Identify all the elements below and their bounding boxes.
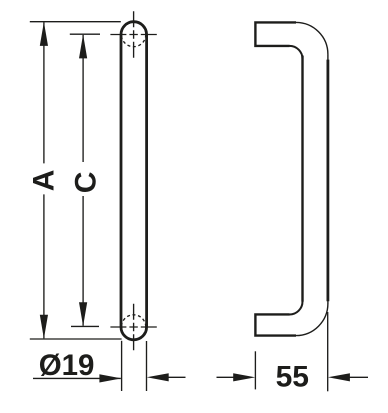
diameter 19 extension line right bbox=[146, 341, 148, 391]
dim 55 left arrowhead bbox=[233, 373, 255, 381]
dim A line bbox=[43, 22, 45, 338]
side view bottom outer bend bbox=[296, 304, 328, 336]
side view top mounting foot bbox=[255, 22, 296, 46]
dim 55 right arrow tail bbox=[350, 376, 369, 378]
diameter 19 right arrow tail bbox=[168, 376, 186, 378]
dim C bottom extension line bbox=[71, 325, 99, 327]
dim 55 right arrowhead bbox=[328, 373, 350, 381]
top center mark vertical bbox=[133, 11, 135, 57]
dim 55 extension line right bbox=[327, 312, 329, 391]
dim A top arrowhead bbox=[40, 22, 48, 46]
front view bottom screw-hole dashed circle bbox=[121, 315, 145, 339]
diameter 19 right arrowhead bbox=[147, 373, 169, 381]
dim A bottom arrowhead bbox=[40, 315, 48, 339]
side view top outer bend tail bbox=[327, 54, 329, 60]
diameter 19 leader line bbox=[33, 377, 121, 379]
bottom center mark horizontal bbox=[110, 326, 156, 328]
side view bottom mounting foot bbox=[255, 314, 296, 335]
dim 55 left arrow tail bbox=[217, 376, 234, 378]
dim C line bbox=[82, 35, 84, 326]
svg-text:55: 55 bbox=[276, 361, 309, 394]
diameter 19 leader arrowhead bbox=[99, 374, 121, 382]
diameter 19 extension line left bbox=[121, 341, 123, 391]
svg-text:C: C bbox=[69, 172, 102, 194]
side view top inner bend bbox=[290, 46, 303, 59]
top center mark horizontal bbox=[110, 34, 156, 36]
dim 55 extension line left bbox=[254, 351, 256, 389]
dim C top arrowhead bbox=[79, 34, 87, 58]
svg-text:A: A bbox=[28, 170, 61, 192]
dim A bottom extension line bbox=[30, 338, 122, 340]
dim C bottom arrowhead bbox=[79, 302, 87, 326]
front view top screw-hole dashed circle bbox=[121, 22, 145, 46]
dim C top extension line bbox=[70, 33, 100, 35]
svg-text:Ø19: Ø19 bbox=[39, 349, 95, 382]
side view bottom outer bend tail bbox=[327, 301, 329, 304]
front view handle outline capsule bbox=[121, 22, 147, 340]
dim A top extension line bbox=[30, 21, 121, 23]
bottom center mark vertical bbox=[133, 304, 135, 350]
side view grip inner edge bbox=[301, 56, 303, 302]
side view bottom inner bend bbox=[290, 302, 303, 315]
side view grip outer edge bbox=[326, 60, 329, 302]
side view top outer bend bbox=[296, 22, 328, 54]
